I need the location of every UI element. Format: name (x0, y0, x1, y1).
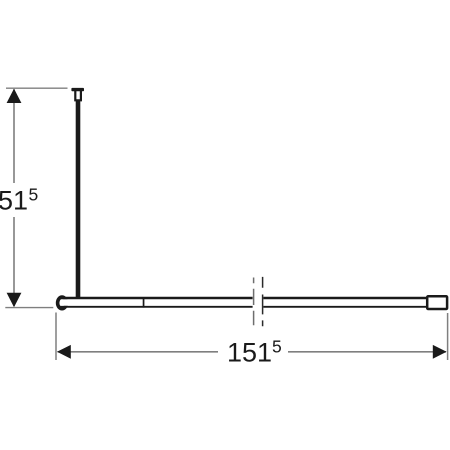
ceiling mount collar (74, 91, 82, 101)
bar interior (62, 299, 427, 306)
arrowhead down (7, 293, 22, 307)
arrowhead right (433, 345, 447, 359)
cut mark right dash-dot line (262, 277, 264, 326)
svg-text:5: 5 (272, 337, 282, 357)
bar top line left segment (60, 297, 253, 300)
extension line top (ceiling level) (6, 87, 68, 89)
bar bottom line right segment (263, 306, 427, 308)
dimension line vertical 51.5 upper segment (13, 89, 15, 183)
vertical rod (76, 101, 81, 298)
dimension line horizontal 151.5 left segment (58, 351, 219, 353)
svg-text:51: 51 (0, 186, 28, 216)
joint tick in bar (143, 297, 145, 308)
bar top line right segment (263, 297, 427, 300)
extension line bottom-left vertical (55, 313, 57, 361)
left ball end cap (58, 297, 67, 309)
extension line bottom-left (bar bottom level) (5, 307, 53, 309)
dimension line horizontal 151.5 right segment (288, 351, 446, 353)
extension line bottom-right vertical (447, 313, 449, 360)
svg-text:151: 151 (227, 338, 272, 368)
dimension line vertical 51.5 lower segment (13, 217, 15, 306)
svg-text:5: 5 (29, 185, 39, 205)
right wall end cap (427, 296, 447, 309)
cut mark left dash-dot line (253, 278, 255, 326)
arrowhead left (57, 345, 71, 359)
ceiling mount flange (71, 88, 84, 91)
bar bottom line left segment (60, 306, 253, 308)
arrowhead up (7, 89, 22, 103)
